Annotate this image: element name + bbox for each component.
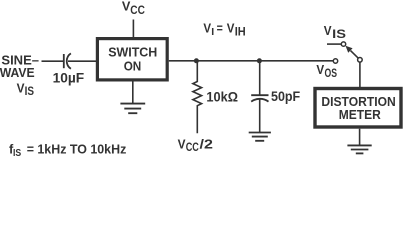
svg-text:V: V bbox=[316, 62, 324, 77]
wire VIS stub to upper contact bbox=[327, 43, 341, 45]
wire VCC to box bbox=[132, 20, 134, 39]
wire junction 2 to VOS contact bbox=[259, 60, 333, 62]
wire switch pole to meter bbox=[359, 62, 361, 87]
svg-text:/2: /2 bbox=[200, 136, 213, 151]
svg-text:SWITCH: SWITCH bbox=[108, 44, 157, 59]
switch S1 upper contact bbox=[341, 42, 345, 46]
label VOS bbox=[316, 62, 337, 80]
wire C2 to ground bbox=[259, 99, 261, 133]
svg-text:=: = bbox=[217, 21, 223, 36]
svg-text:= 1kHz TO 10kHz: = 1kHz TO 10kHz bbox=[27, 142, 127, 157]
wire source to C1 bbox=[42, 60, 64, 62]
capacitor C1 10uF bbox=[64, 53, 71, 68]
svg-text:V: V bbox=[227, 21, 235, 36]
switch S1 lower contact bbox=[333, 59, 337, 63]
svg-text:CC: CC bbox=[186, 142, 199, 154]
svg-text:V: V bbox=[178, 136, 186, 151]
wire box output to junction 1 bbox=[169, 60, 197, 62]
ground under meter bbox=[347, 145, 371, 153]
node VIS source label SINE-WAVE bbox=[0, 53, 39, 99]
svg-text:ON: ON bbox=[124, 59, 142, 74]
distortion meter box bbox=[315, 89, 401, 128]
ground under switch-on box bbox=[120, 104, 145, 114]
svg-text:50pF: 50pF bbox=[271, 89, 300, 104]
wire junction 2 to C2 bbox=[259, 61, 261, 95]
ground under C2 bbox=[249, 133, 271, 141]
capacitor C2 50pF bbox=[251, 95, 268, 101]
svg-text:IS: IS bbox=[13, 147, 21, 158]
wire C1 to switch-on box bbox=[68, 60, 96, 62]
svg-text:WAVE: WAVE bbox=[0, 65, 35, 80]
svg-text:I: I bbox=[211, 26, 214, 38]
switch-on box U1 bbox=[97, 39, 167, 80]
svg-text:10µF: 10µF bbox=[53, 71, 85, 86]
label VIS at switch bbox=[324, 23, 347, 41]
svg-text:V: V bbox=[324, 23, 332, 38]
junction dot 1 bbox=[194, 58, 199, 63]
svg-text:V: V bbox=[203, 21, 211, 36]
power VCC/2 label bbox=[178, 136, 213, 154]
svg-text:IS: IS bbox=[332, 29, 346, 41]
svg-text:CC: CC bbox=[130, 5, 145, 17]
switch S1 lever with arrow bbox=[351, 51, 359, 59]
svg-text:METER: METER bbox=[339, 107, 381, 122]
svg-text:10kΩ: 10kΩ bbox=[206, 89, 238, 104]
wire box to ground bbox=[132, 82, 134, 104]
power VCC label bbox=[122, 0, 145, 17]
switch S1 pole contact bbox=[358, 58, 363, 63]
wire junction 1 to junction 2 bbox=[196, 60, 259, 62]
resistor R1 bbox=[193, 61, 202, 133]
junction dot 2 bbox=[257, 58, 262, 63]
svg-text:OS: OS bbox=[325, 68, 338, 80]
frequency note fIS = 1kHz TO 10kHz bbox=[9, 142, 126, 159]
svg-text:IH: IH bbox=[235, 26, 246, 38]
wire meter to ground bbox=[359, 129, 361, 146]
label VI = VIH bbox=[203, 21, 245, 39]
svg-text:IS: IS bbox=[25, 86, 35, 98]
